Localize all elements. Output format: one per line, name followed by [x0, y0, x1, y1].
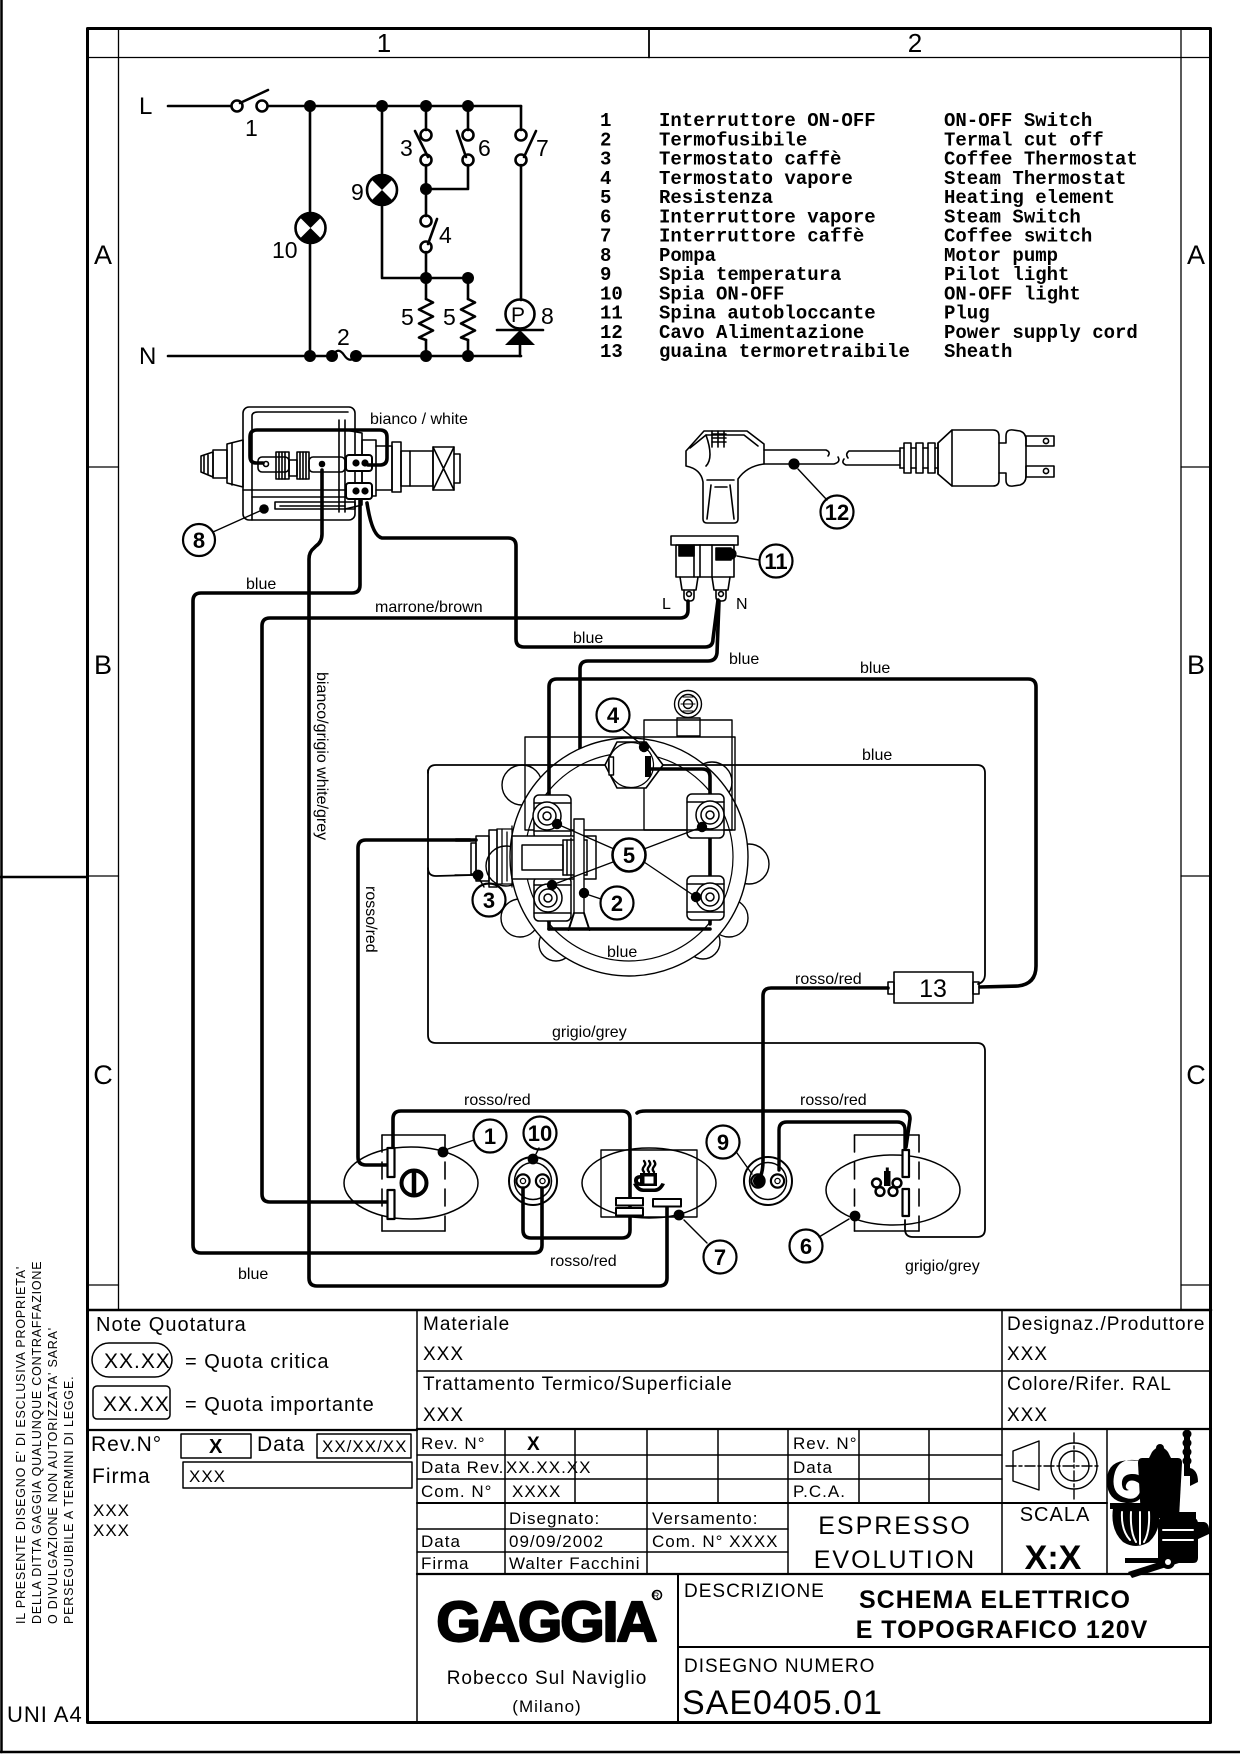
- disegnato rows: [417, 1528, 788, 1530]
- svg-text:R: R: [653, 1591, 660, 1601]
- descrizione/disegno divider: [678, 1646, 1211, 1648]
- svg-text:Robecco Sul Naviglio: Robecco Sul Naviglio: [447, 1668, 648, 1689]
- back plate: [525, 737, 735, 830]
- svg-text:1: 1: [245, 115, 258, 141]
- switch 7: [516, 130, 549, 166]
- svg-text:Disegnato:: Disegnato:: [509, 1509, 600, 1528]
- svg-text:rosso/red: rosso/red: [795, 971, 862, 988]
- svg-text:rosso/red: rosso/red: [800, 1092, 867, 1109]
- cord dot: [788, 458, 799, 469]
- thermostat 4 left terminal: [609, 757, 614, 775]
- element flange washers: [497, 826, 512, 887]
- wire branch 7: [520, 106, 523, 130]
- boiler inner ring: [525, 753, 733, 961]
- mini table columns: [858, 1429, 860, 1503]
- svg-text:6: 6: [800, 1234, 812, 1259]
- element terminal TL: [533, 795, 571, 839]
- svg-text:1: 1: [377, 28, 391, 58]
- svg-text:2: 2: [908, 28, 922, 58]
- svg-text:EVOLUTION: EVOLUTION: [814, 1546, 976, 1574]
- svg-text:X: X: [209, 1436, 223, 1458]
- wire thick thermostat to bus: [651, 769, 710, 924]
- wire L rail right: [268, 105, 521, 108]
- lamp 9: [707, 1126, 793, 1206]
- element flange block: [512, 836, 596, 879]
- wire blue pump to plug N: [367, 503, 718, 647]
- wire 3-4: [425, 165, 428, 216]
- svg-text:blue: blue: [729, 651, 759, 668]
- svg-text:10: 10: [528, 1121, 552, 1146]
- svg-text:rosso/red: rosso/red: [362, 886, 379, 953]
- switch 6: [457, 130, 491, 166]
- svg-text:Data: Data: [793, 1458, 833, 1477]
- svg-text:IL PRESENTE DISEGNO E' DI ESCL: IL PRESENTE DISEGNO E' DI ESCLUSIVA PROP…: [14, 1266, 28, 1624]
- svg-text:ESPRESSO: ESPRESSO: [818, 1512, 972, 1540]
- element terminal BL: [534, 877, 571, 921]
- svg-text:blue: blue: [862, 747, 892, 764]
- pot lid and body: [1149, 1447, 1171, 1458]
- wire node to resistor2: [467, 278, 470, 299]
- wire blue pump down-around to lamp10: [193, 500, 542, 1253]
- pump body: [243, 407, 355, 520]
- junction dots schematic: [304, 100, 474, 362]
- switch 1 (on-off): [344, 1120, 507, 1232]
- wire branch 6: [467, 106, 470, 130]
- wire lamp9 down: [382, 204, 426, 278]
- wire rosso 13 to lamp9: [760, 988, 888, 1177]
- wire marrone plug L to switch1: [262, 601, 688, 1202]
- wire grigio branch to thermostat3 dot: [428, 868, 473, 876]
- svg-text:rosso/red: rosso/red: [550, 1253, 617, 1270]
- cup bowl lower-left: [1112, 1508, 1159, 1546]
- wire pump to N: [519, 345, 522, 356]
- element terminal BR: [687, 876, 724, 920]
- emblem base and handle stick: [1125, 1555, 1182, 1578]
- svg-text:XX.XX: XX.XX: [103, 1393, 170, 1416]
- svg-text:5: 5: [401, 304, 414, 330]
- svg-text:P: P: [511, 304, 525, 327]
- svg-text:Data Rev.: Data Rev.: [421, 1458, 504, 1477]
- rev table columns: [504, 1429, 506, 1574]
- svg-text:09/09/2002: 09/09/2002: [509, 1532, 604, 1551]
- white wire loop: [250, 430, 387, 465]
- wire branch 3: [425, 106, 428, 130]
- screw: [675, 691, 702, 718]
- wire rosso to switch6: [637, 1111, 910, 1147]
- thermofuse 2: [332, 324, 356, 360]
- svg-text:4: 4: [439, 222, 452, 248]
- handle curl: [1107, 1460, 1144, 1503]
- svg-text:C: C: [1186, 1060, 1206, 1090]
- svg-text:6: 6: [478, 135, 491, 161]
- svg-text:SCALA: SCALA: [1020, 1504, 1091, 1526]
- row divider C/bottom right: [1181, 1284, 1211, 1286]
- quota importante box: [93, 1386, 170, 1419]
- svg-text:A: A: [94, 240, 112, 270]
- thermostat 4 hexagon: [605, 742, 663, 788]
- wire rosso switch1 to lamp10: [393, 1111, 630, 1238]
- row divider A/B left: [88, 466, 119, 468]
- wires resistors to N: [425, 340, 428, 356]
- wire rosso element to switch1: [358, 840, 470, 1165]
- svg-text:X:X: X:X: [1025, 1539, 1082, 1577]
- svg-text:13: 13: [919, 975, 947, 1003]
- svg-text:guaina termoretraibile: guaina termoretraibile: [659, 341, 910, 363]
- svg-text:Rev. N°: Rev. N°: [421, 1434, 486, 1453]
- row divider B/C left: [88, 875, 119, 877]
- callout circle 11: [760, 545, 793, 578]
- gaggia emblem (coffee pot): [1107, 1430, 1209, 1564]
- wire branch 9: [381, 106, 384, 176]
- svg-text:X: X: [527, 1434, 540, 1455]
- wire lamp9 to switch6: [779, 1122, 905, 1170]
- svg-text:Firma: Firma: [421, 1554, 469, 1573]
- svg-text:XXX: XXX: [93, 1501, 130, 1520]
- label band left line: [118, 28, 120, 1310]
- bottom section top line: [417, 1573, 1211, 1575]
- svg-text:(Milano): (Milano): [512, 1697, 581, 1716]
- row divider C/bottom left: [88, 1284, 119, 1286]
- svg-text:9: 9: [351, 179, 364, 205]
- svg-text:9: 9: [717, 1130, 729, 1155]
- svg-text:L: L: [662, 596, 671, 613]
- svg-text:O DIVULGAZIONE NON AUTORIZZATA: O DIVULGAZIONE NON AUTORIZZATA' SARA': [46, 1327, 60, 1624]
- svg-text:marrone/brown: marrone/brown: [375, 599, 483, 616]
- svg-text:N: N: [736, 596, 748, 613]
- steam switch 6: [790, 1135, 961, 1263]
- wire grigio long path: [428, 770, 985, 1237]
- svg-text:Versamento:: Versamento:: [652, 1509, 758, 1528]
- pump right terminals: [346, 455, 372, 499]
- svg-text:B: B: [94, 650, 112, 680]
- svg-text:L: L: [139, 93, 152, 120]
- leader 12: [798, 469, 827, 500]
- leader dot 11: [725, 548, 736, 559]
- svg-text:blue: blue: [607, 944, 637, 961]
- svg-text:Data: Data: [257, 1433, 305, 1456]
- svg-text:Materiale: Materiale: [423, 1314, 510, 1335]
- switch 1: [232, 90, 269, 141]
- wire bus left up to blue13: [549, 679, 1036, 987]
- svg-text:5: 5: [443, 304, 456, 330]
- title block top line: [88, 1309, 1212, 1312]
- svg-text:DESCRIZIONE: DESCRIZIONE: [684, 1581, 825, 1602]
- screw bracket: [677, 718, 700, 736]
- thermostat 4 round body: [609, 743, 654, 788]
- svg-text:XXX: XXX: [423, 1344, 464, 1365]
- svg-text:Walter Facchini: Walter Facchini: [509, 1554, 641, 1573]
- quota critica stadium box: [92, 1343, 172, 1377]
- svg-text:bianco / white: bianco / white: [370, 411, 468, 428]
- svg-text:XXX: XXX: [93, 1521, 130, 1540]
- svg-text:SCHEMA ELETTRICO: SCHEMA ELETTRICO: [859, 1586, 1131, 1614]
- divider designaz column: [1001, 1310, 1003, 1574]
- row divider B/C right: [1181, 875, 1211, 877]
- svg-text:XXX: XXX: [189, 1467, 226, 1486]
- svg-text:7: 7: [714, 1245, 726, 1270]
- wire blue plug N to thermofuse: [580, 601, 719, 806]
- plug pins: [680, 577, 730, 601]
- svg-text:XXX: XXX: [1007, 1344, 1048, 1365]
- leader 4: [597, 699, 650, 753]
- svg-text:Sheath: Sheath: [944, 341, 1012, 363]
- svg-text:N: N: [139, 343, 156, 370]
- svg-text:C: C: [93, 1060, 113, 1090]
- wire 6 to node: [426, 165, 468, 189]
- lamp 9: [351, 175, 397, 205]
- svg-text:= Quota importante: = Quota importante: [185, 1394, 375, 1416]
- svg-text:bianco/grigio white/grey: bianco/grigio white/grey: [313, 672, 330, 840]
- rev table rows: [417, 1454, 1002, 1456]
- svg-text:DELLA DITTA GAGGIA QUALUNQUE C: DELLA DITTA GAGGIA QUALUNQUE CONTRAFFAZI…: [30, 1261, 44, 1624]
- page left border: [0, 0, 3, 1752]
- svg-text:7: 7: [536, 135, 549, 161]
- svg-text:10: 10: [272, 237, 298, 263]
- callout circle 12: [821, 496, 854, 529]
- svg-text:5: 5: [623, 843, 635, 868]
- divider note/rev row: [88, 1429, 418, 1431]
- pump right cylinders: [362, 440, 460, 496]
- svg-text:Com. N° XXXX: Com. N° XXXX: [652, 1532, 779, 1551]
- wire blue thermostat line: [428, 765, 985, 984]
- thermostat 4 right terminal: [645, 756, 651, 777]
- lamp 10: [509, 1117, 557, 1206]
- margin strip divider: [0, 876, 88, 879]
- plug body: [938, 430, 1026, 486]
- svg-text:PERSEGUIBILE A TERMINI DI LEGG: PERSEGUIBILE A TERMINI DI LEGGE.: [62, 1376, 76, 1624]
- svg-text:XX.XX.XX: XX.XX.XX: [506, 1458, 591, 1477]
- wire N rail left: [168, 355, 332, 358]
- svg-text:Rev.N°: Rev.N°: [91, 1433, 162, 1456]
- leader 8: [213, 510, 262, 532]
- steam pipe with beads: [1184, 1436, 1190, 1476]
- resistor 5a: [401, 299, 433, 340]
- leader 3: [473, 870, 506, 917]
- iec connector: [686, 431, 764, 523]
- svg-text:13: 13: [600, 341, 623, 363]
- thick terminal tab on rosso: [456, 838, 476, 842]
- heating element X leaders: [547, 819, 707, 902]
- gaggia cell divider: [677, 1574, 679, 1722]
- wire white/grey pump to coffee switch: [309, 470, 667, 1286]
- svg-text:XXXX: XXXX: [512, 1482, 561, 1501]
- wire 7 to pump: [520, 165, 523, 300]
- machine body lower right: [1158, 1518, 1198, 1563]
- wire N rail right: [356, 355, 521, 358]
- svg-text:blue: blue: [246, 576, 276, 593]
- wire lamp10 to N: [309, 242, 312, 356]
- top band line: [88, 57, 1212, 59]
- svg-text:rosso/red: rosso/red: [464, 1092, 531, 1109]
- wire 4 to resistor node: [425, 252, 428, 299]
- vertical divider note/materiale: [416, 1310, 418, 1722]
- svg-text:8: 8: [541, 303, 554, 329]
- boiler body: [510, 738, 748, 976]
- page bottom border: [0, 1751, 1240, 1754]
- svg-text:1: 1: [484, 1124, 496, 1149]
- svg-text:XXX: XXX: [423, 1405, 464, 1426]
- boiler scallop bumps: [486, 762, 769, 961]
- element terminal TR: [687, 794, 724, 838]
- svg-text:2: 2: [611, 891, 623, 916]
- lamp 10: [272, 213, 326, 263]
- wire bus bottom: [549, 927, 710, 931]
- svg-text:UNI A4: UNI A4: [7, 1702, 83, 1727]
- svg-text:Data: Data: [421, 1532, 461, 1551]
- projection symbol: [1006, 1433, 1101, 1499]
- svg-text:grigio/grey: grigio/grey: [905, 1258, 980, 1275]
- thin lead to fuse strip: [579, 806, 581, 819]
- strain relief: [900, 443, 938, 474]
- svg-text:3: 3: [400, 135, 413, 161]
- scala/emblem divider: [1106, 1429, 1108, 1574]
- pump 8: [497, 300, 554, 346]
- emblem cup ribs: [1122, 1512, 1193, 1544]
- svg-text:XX/XX/XX: XX/XX/XX: [322, 1437, 407, 1456]
- svg-text:= Quota critica: = Quota critica: [185, 1351, 330, 1373]
- svg-text:2: 2: [337, 324, 350, 350]
- wire resistor bridge: [426, 277, 468, 280]
- pump mount dot: [259, 504, 269, 514]
- coffee switch 7: [582, 1148, 737, 1274]
- row divider A/B right: [1181, 466, 1211, 468]
- wire L rail left: [168, 105, 231, 108]
- svg-text:Note Quotatura: Note Quotatura: [96, 1314, 247, 1336]
- pump left terminal tab: [258, 457, 289, 472]
- svg-text:8: 8: [193, 528, 205, 553]
- svg-text:P.C.A.: P.C.A.: [793, 1482, 846, 1501]
- svg-text:E TOPOGRAFICO 120V: E TOPOGRAFICO 120V: [856, 1616, 1149, 1644]
- margin legal text: [14, 1261, 76, 1624]
- svg-text:A: A: [1187, 240, 1205, 270]
- svg-text:B: B: [1187, 650, 1205, 680]
- pump capacitor block: [276, 452, 309, 479]
- svg-text:4: 4: [607, 703, 620, 728]
- callout circle 5: [613, 839, 646, 872]
- thermofuse strip: [569, 819, 590, 930]
- resistor 5b: [443, 299, 475, 340]
- right plate: [644, 720, 732, 830]
- plug blades: [1026, 436, 1054, 477]
- wire stub y875: [455, 874, 473, 876]
- svg-text:11: 11: [764, 549, 787, 574]
- divider trattamento/revtable: [417, 1428, 1211, 1430]
- svg-text:GAGGIA: GAGGIA: [436, 1590, 656, 1654]
- label band right line: [1180, 28, 1182, 1310]
- top band divider: [648, 28, 650, 58]
- svg-text:Com. N°: Com. N°: [421, 1482, 492, 1501]
- wire branch 10: [309, 106, 312, 214]
- plug top bar: [671, 536, 738, 545]
- svg-text:grigio/grey: grigio/grey: [552, 1024, 627, 1041]
- svg-text:Firma: Firma: [92, 1465, 151, 1488]
- pump left shaft: [201, 440, 243, 487]
- thermostat 3 body: [471, 830, 497, 887]
- svg-text:Designaz./Produttore: Designaz./Produttore: [1007, 1314, 1206, 1335]
- pump right plate: [339, 420, 362, 512]
- svg-text:SAE0405.01: SAE0405.01: [682, 1684, 883, 1722]
- svg-text:blue: blue: [573, 630, 603, 647]
- steam knob icon: [884, 1168, 891, 1187]
- leader 2: [579, 887, 634, 920]
- svg-text:12: 12: [825, 500, 849, 525]
- svg-text:Trattamento Termico/Superfici: Trattamento Termico/Superficiale: [423, 1374, 733, 1395]
- svg-text:XX.XX: XX.XX: [104, 1350, 171, 1373]
- svg-text:3: 3: [483, 888, 495, 913]
- cord lines: [764, 450, 839, 464]
- plug body: [676, 545, 734, 577]
- svg-text:XXX: XXX: [1007, 1405, 1048, 1426]
- cup icon: [633, 1173, 665, 1192]
- svg-text:Colore/Rifer. RAL: Colore/Rifer. RAL: [1007, 1374, 1172, 1395]
- divider materiale/trattamento: [417, 1370, 1211, 1372]
- svg-text:Rev. N°: Rev. N°: [793, 1434, 858, 1453]
- svg-text:DISEGNO NUMERO: DISEGNO NUMERO: [684, 1656, 875, 1677]
- callout circle 8: [183, 524, 215, 556]
- svg-text:blue: blue: [860, 660, 890, 677]
- switch 3: [400, 130, 432, 166]
- switch 4: [421, 216, 453, 253]
- svg-text:blue: blue: [238, 1266, 268, 1283]
- pump mid terminal tab: [309, 457, 345, 472]
